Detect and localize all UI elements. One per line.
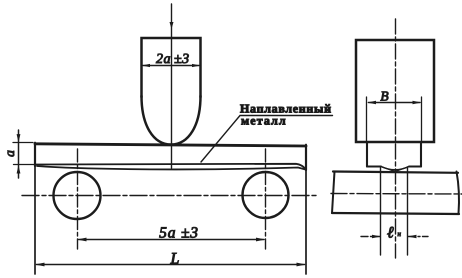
svg-text:a: a [2,150,17,157]
svg-text:±3: ±3 [174,52,190,67]
svg-text:5a ±3: 5a ±3 [159,225,199,242]
svg-text:н: н [398,230,402,238]
svg-text:2a: 2a [156,52,171,67]
svg-text:В: В [380,89,388,104]
svg-text:металл: металл [241,114,287,128]
svg-text:L: L [170,251,180,268]
svg-text:ℓ: ℓ [387,225,394,242]
